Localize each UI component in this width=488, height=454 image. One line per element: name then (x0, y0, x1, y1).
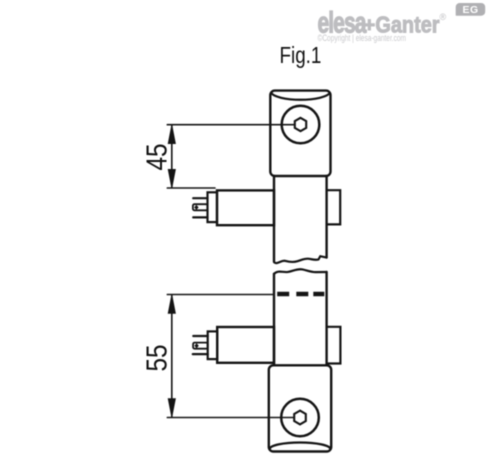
upper latch pin center dot (194, 205, 198, 210)
EG badge (456, 3, 486, 16)
lower latch pin center dot (194, 343, 198, 348)
lower latch pin (193, 343, 208, 349)
svg-text:®: ® (440, 12, 447, 22)
svg-text:45: 45 (141, 143, 173, 170)
bottom cap body (269, 365, 331, 451)
bottom pivot hole circle (281, 399, 319, 437)
upper shaft left edge (273, 176, 275, 262)
upper latch body (217, 190, 274, 225)
top pivot hole circle (282, 106, 320, 144)
svg-text:EG: EG (463, 4, 479, 16)
upper shaft right edge (325, 176, 327, 258)
hidden axis dashed line (277, 292, 324, 297)
upper latch top whisker (193, 197, 207, 199)
svg-text:©Copyright | elesa-ganter.com: ©Copyright | elesa-ganter.com (318, 33, 407, 43)
dim 55 arrow down (168, 399, 175, 417)
top cap cylinder arc (271, 93, 330, 100)
dim 55 arrow up (168, 295, 175, 313)
dim 45 top extension line (167, 124, 294, 126)
dim 45 bottom extension line (167, 187, 215, 189)
upper latch bottom whisker (193, 216, 207, 218)
lower latch top whisker (193, 335, 207, 337)
lower right tab (327, 327, 341, 364)
lower latch bottom whisker (193, 353, 208, 355)
bottom hex socket (294, 411, 306, 425)
svg-text:Fig.1: Fig.1 (280, 43, 322, 68)
upper latch collar (208, 192, 218, 222)
lower latch body (217, 327, 274, 363)
dim 55 line (171, 295, 173, 416)
dim 55 top extension line (167, 294, 273, 296)
dim 55 bottom extension line (167, 417, 293, 419)
lower shaft left edge (273, 274, 275, 365)
dim 45 line (171, 126, 173, 188)
upper shaft break wavy edge (274, 256, 327, 263)
dim 45 arrow up (168, 125, 175, 143)
svg-text:55: 55 (141, 344, 173, 371)
upper latch pin (193, 204, 208, 210)
bottom cap cylinder arc (270, 442, 330, 448)
dim 45 arrow down (168, 170, 175, 188)
top hex socket (295, 118, 306, 131)
upper right tab (327, 190, 341, 224)
lower shaft right edge (325, 272, 327, 365)
lower latch collar (208, 331, 218, 359)
logo elesa+Ganter (318, 7, 447, 39)
lower shaft top wavy edge (274, 269, 327, 274)
top cap body (270, 91, 330, 176)
